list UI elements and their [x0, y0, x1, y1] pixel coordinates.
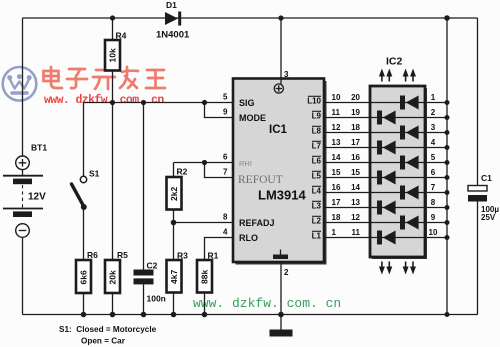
wire SIG to R5: [112, 103, 114, 261]
svg-text:S1: S1: [89, 169, 100, 179]
wire IC2 pin 2 to bus: [425, 117, 447, 119]
junction R2/R3/REFADJ: [171, 220, 177, 226]
svg-text:1: 1: [332, 228, 337, 237]
junction bus pin 9: [445, 220, 450, 225]
wire inside IC2 row 5: [370, 162, 425, 164]
svg-text:2k2: 2k2: [169, 187, 179, 201]
svg-text:12: 12: [351, 213, 360, 222]
svg-text:Open = Car: Open = Car: [81, 337, 126, 346]
output label L9 with overbar: [312, 111, 322, 120]
output label L5 with overbar: [312, 171, 322, 180]
svg-text:7: 7: [431, 183, 436, 192]
svg-text:2: 2: [284, 268, 289, 277]
svg-text:1: 1: [431, 93, 436, 102]
wire IC2 pin 9 to bus: [425, 222, 447, 224]
junction bus pin 1: [445, 100, 450, 105]
resistor R2 2k2: [167, 177, 182, 210]
svg-text:1N4001: 1N4001: [156, 30, 190, 41]
wire IC1 L3 to IC2: [324, 207, 370, 209]
svg-text:15: 15: [332, 168, 341, 177]
wire MODE link: [205, 103, 234, 118]
svg-text:11: 11: [332, 108, 341, 117]
pin 2 wire ground: [280, 262, 282, 330]
wire IC2 pin 5 to bus: [425, 162, 447, 164]
ground symbol inside IC1: [273, 250, 288, 260]
junction bus pin 8: [445, 205, 450, 210]
LED D3 row 2: [377, 111, 396, 125]
output label L10 with overbar: [307, 96, 321, 105]
svg-text:S1: Closed = Motorcycle: S1: Closed = Motorcycle: [59, 325, 157, 334]
LED D6 row 5: [400, 156, 419, 170]
LED light arrow down 2: [386, 262, 392, 275]
svg-text:C2: C2: [147, 261, 158, 271]
svg-text:L6: L6: [312, 157, 322, 166]
output label L3 with overbar: [312, 201, 322, 210]
svg-text:20k: 20k: [108, 270, 118, 284]
junction bus pin 10: [445, 235, 450, 240]
wire IC2 pin 4 to bus: [425, 147, 447, 149]
wire IC1 L10 to IC2: [324, 102, 370, 104]
svg-text:16: 16: [332, 183, 341, 192]
ground: [270, 330, 293, 337]
junction top rail / bus: [444, 15, 450, 21]
wire RLO pin4 to R1: [205, 238, 234, 261]
svg-text:IC2: IC2: [386, 56, 403, 68]
svg-text:L9: L9: [312, 112, 322, 121]
wire IC1 L7 to IC2: [324, 147, 370, 149]
svg-text:REFADJ: REFADJ: [239, 218, 275, 228]
LED light arrow down 1: [379, 262, 385, 275]
junction bottom rail / pin2: [278, 312, 284, 318]
wire SIG to C2: [143, 103, 145, 270]
output label L1 with overbar: [312, 231, 322, 240]
svg-text:REFOUT: REFOUT: [238, 174, 283, 186]
junction bus pin 3: [445, 130, 450, 135]
wire battery negative to bottom rail: [22, 238, 24, 315]
svg-text:6: 6: [223, 153, 228, 162]
svg-text:100n: 100n: [147, 294, 166, 304]
svg-text:MODE: MODE: [239, 113, 266, 123]
LED D10 row 9: [400, 216, 419, 230]
resistor R5 20k: [105, 260, 120, 293]
svg-text:LM3914: LM3914: [258, 188, 306, 203]
svg-text:2: 2: [431, 108, 436, 117]
wire RHI to R2: [173, 163, 175, 178]
wire top rail: [23, 17, 478, 19]
junction bus pin 2: [445, 115, 450, 120]
svg-text:5: 5: [431, 153, 436, 162]
wire inside IC2 row 7: [370, 192, 425, 194]
wire inside IC2 row 10: [370, 237, 425, 239]
wire IC2 pin 1 to bus: [425, 102, 447, 104]
junction top rail / R4: [110, 15, 115, 20]
svg-text:L2: L2: [312, 217, 322, 226]
wire inside IC2 row 2: [370, 117, 425, 119]
wire IC2 pin 8 to bus: [425, 207, 447, 209]
wire inside IC2 row 1: [370, 102, 425, 104]
svg-text:R1: R1: [208, 251, 219, 261]
wire R1 to bottom: [204, 293, 206, 315]
svg-text:D1: D1: [166, 0, 177, 10]
svg-text:BT1: BT1: [31, 143, 47, 153]
wire R6 to bottom: [83, 293, 85, 315]
svg-text:4: 4: [431, 138, 436, 147]
wire R3 to bottom: [173, 293, 175, 315]
svg-text:15: 15: [351, 168, 360, 177]
wire LED cathode bus: [446, 18, 448, 315]
svg-text:R4: R4: [116, 31, 127, 41]
svg-text:R5: R5: [117, 250, 128, 260]
svg-text:9: 9: [431, 213, 436, 222]
resistor R3 4k7: [167, 260, 182, 293]
diode D1: [165, 12, 181, 26]
output label L7 with overbar: [312, 141, 322, 150]
LED D2 row 1: [400, 96, 419, 110]
svg-text:14: 14: [332, 153, 341, 162]
svg-text:10k: 10k: [108, 48, 118, 62]
svg-text:RHI: RHI: [239, 159, 252, 168]
wire C1 to bottom rail: [477, 202, 479, 315]
svg-text:L5: L5: [312, 172, 322, 181]
svg-text:25V: 25V: [481, 213, 496, 222]
wire S1 to R6: [83, 207, 85, 260]
svg-text:4: 4: [223, 228, 228, 237]
junction bottom rail / bus: [445, 312, 450, 317]
wire IC2 pin 7 to bus: [425, 192, 447, 194]
junction top rail / pin3: [278, 15, 283, 20]
svg-text:13: 13: [332, 138, 341, 147]
LED array IC2 body: [370, 86, 427, 259]
op-amp IC1 LM3914 body: [233, 79, 327, 265]
supply plus symbol: [274, 84, 283, 93]
wire node to R3: [173, 223, 175, 261]
wire inside IC2 row 9: [370, 222, 425, 224]
wire REFOUT link pin7: [205, 163, 234, 178]
wire IC2 pin 3 to bus: [425, 132, 447, 134]
wire IC1 L6 to IC2: [324, 162, 370, 164]
wire IC2 pin 6 to bus: [425, 177, 447, 179]
svg-text:18: 18: [351, 123, 360, 132]
svg-text:7: 7: [223, 168, 228, 177]
svg-text:R6: R6: [87, 250, 98, 260]
wire SIG node row: [84, 102, 234, 104]
wire IC1 L5 to IC2: [324, 177, 370, 179]
svg-text:12: 12: [332, 123, 341, 132]
LED light arrow down 4: [410, 262, 416, 275]
svg-text:16: 16: [351, 153, 360, 162]
LED D11 row 10: [377, 231, 396, 245]
svg-text:RLO: RLO: [239, 233, 258, 243]
wire inside IC2 row 3: [370, 132, 425, 134]
wire R4 to SIG node: [112, 71, 114, 103]
svg-text:C1: C1: [481, 173, 492, 183]
LED light arrow up 1: [379, 69, 385, 82]
svg-text:11: 11: [352, 228, 361, 237]
output label L8 with overbar: [312, 126, 322, 135]
junction bus pin 7: [445, 190, 450, 195]
svg-text:12V: 12V: [28, 192, 46, 203]
wire inside IC2 row 4: [370, 147, 425, 149]
svg-text:4k7: 4k7: [169, 270, 179, 284]
wire C2 to bottom: [143, 284, 145, 314]
capacitor C2 100n: [134, 270, 154, 285]
capacitor C1 electrolytic: [468, 186, 487, 202]
junction bottom/R3: [171, 312, 177, 318]
LED D7 row 6: [377, 171, 396, 185]
svg-text:6k6: 6k6: [79, 270, 89, 284]
switch S1: [72, 176, 87, 210]
svg-text:8: 8: [223, 213, 228, 222]
LED light arrow down 3: [403, 262, 409, 275]
svg-text:L3: L3: [312, 202, 322, 211]
svg-text:17: 17: [351, 138, 360, 147]
svg-text:www. dzkfw. com. cn: www. dzkfw. com. cn: [44, 94, 164, 107]
svg-text:9: 9: [223, 108, 228, 117]
watermark chinese text dianzi kaifa wang: [44, 67, 166, 89]
resistor R1 88k: [197, 260, 212, 293]
wire IC1 L9 to IC2: [324, 117, 370, 119]
svg-text:18: 18: [332, 213, 341, 222]
junction bottom/R5: [110, 312, 116, 318]
junction bus pin 6: [445, 175, 450, 180]
wire SIG to S1: [83, 103, 85, 177]
svg-text:R2: R2: [177, 167, 188, 177]
wire RHI row pin6: [174, 162, 234, 164]
svg-text:5: 5: [223, 93, 228, 102]
svg-text:L7: L7: [312, 142, 322, 151]
wire top rail to R4: [112, 18, 114, 40]
junction SIG/MODE: [202, 100, 207, 105]
resistor R6 6k6: [76, 260, 91, 293]
LED light arrow up 2: [386, 69, 392, 82]
svg-text:3: 3: [431, 123, 436, 132]
wire IC1 L1 to IC2: [324, 237, 370, 239]
wire bottom rail: [23, 314, 478, 316]
battery BT1: [3, 156, 43, 237]
svg-text:L4: L4: [312, 187, 322, 196]
wire inside IC2 row 6: [370, 177, 425, 179]
svg-text:6: 6: [431, 168, 436, 177]
LED D4 row 3: [400, 126, 419, 140]
LED light arrow up 4: [410, 69, 416, 82]
wire IC2 pin 10 to bus: [425, 237, 447, 239]
svg-text:SIG: SIG: [239, 98, 255, 108]
svg-text:19: 19: [351, 108, 360, 117]
LED light arrow up 3: [403, 69, 409, 82]
svg-text:www. dzkfw. com. cn: www. dzkfw. com. cn: [193, 296, 341, 311]
LED D9 row 8: [377, 201, 396, 215]
junction bottom/C2: [141, 312, 147, 318]
svg-text:R3: R3: [177, 251, 188, 261]
junction SIG/C2: [141, 100, 146, 105]
junction bottom/R6: [81, 312, 87, 318]
wire REFADJ row pin8: [174, 222, 234, 224]
junction bottom/R1: [202, 312, 208, 318]
svg-text:88k: 88k: [200, 270, 210, 284]
output label L2 with overbar: [312, 216, 322, 225]
wire IC1 L2 to IC2: [324, 222, 370, 224]
watermark W logo: [3, 67, 37, 101]
junction bus pin 4: [445, 145, 450, 150]
svg-text:3: 3: [284, 70, 289, 79]
svg-text:L8: L8: [312, 127, 322, 136]
wire left rail to battery: [22, 18, 24, 156]
svg-text:13: 13: [351, 198, 360, 207]
junction SIG/R4R5: [110, 100, 115, 105]
junction RHI/REFOUT: [202, 160, 207, 165]
svg-text:L1: L1: [312, 232, 322, 241]
svg-text:10: 10: [332, 93, 341, 102]
svg-text:IC1: IC1: [269, 124, 288, 136]
svg-text:14: 14: [351, 183, 360, 192]
svg-text:L10: L10: [307, 97, 321, 106]
wire R2 to REFADJ node: [173, 210, 175, 223]
wire inside IC2 row 8: [370, 207, 425, 209]
svg-text:17: 17: [332, 198, 341, 207]
wire IC1 L8 to IC2: [324, 132, 370, 134]
output label L4 with overbar: [312, 186, 322, 195]
LED D8 row 7: [400, 186, 419, 200]
wire IC1 L4 to IC2: [324, 192, 370, 194]
junction bus pin 5: [445, 160, 450, 165]
resistor R4 10k: [105, 40, 120, 71]
svg-text:8: 8: [431, 198, 436, 207]
LED D5 row 4: [377, 141, 396, 155]
output label L6 with overbar: [312, 156, 322, 165]
pin 3 wire supply: [280, 18, 282, 84]
wire top rail to C1: [477, 18, 479, 186]
svg-text:20: 20: [351, 93, 360, 102]
wire R5 to bottom: [112, 293, 114, 315]
svg-text:10: 10: [429, 228, 438, 237]
